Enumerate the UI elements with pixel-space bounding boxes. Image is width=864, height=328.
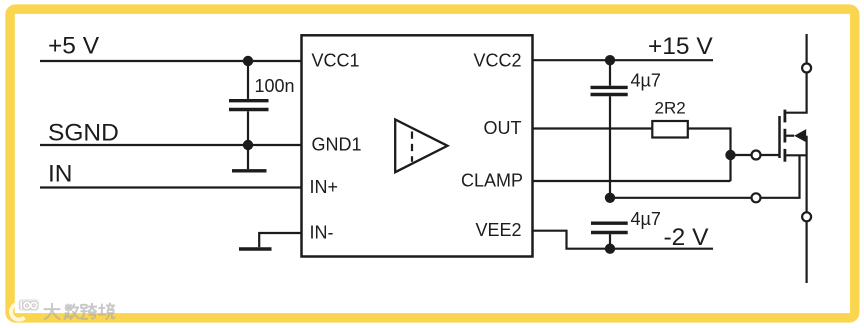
resistor 2R2 (652, 121, 688, 138)
svg-text:4µ7: 4µ7 (631, 71, 661, 91)
svg-text:IN+: IN+ (310, 177, 339, 197)
svg-text:IN-: IN- (310, 222, 334, 242)
connector circle source row (752, 193, 761, 202)
svg-text:SGND: SGND (48, 119, 119, 146)
watermark logo (11, 299, 39, 319)
svg-text:VCC2: VCC2 (473, 50, 521, 70)
transistor Q1 MOSFET (780, 34, 807, 283)
svg-text:GND1: GND1 (312, 135, 362, 155)
svg-text:+5 V: +5 V (48, 33, 100, 60)
svg-text:VEE2: VEE2 (475, 220, 521, 240)
wire SGND rail (40, 144, 302, 146)
capacitor 4u7 upper (591, 60, 628, 198)
MOSFET body arrow (794, 129, 806, 142)
svg-text:CLAMP: CLAMP (461, 170, 523, 190)
wire CLAMP (533, 180, 731, 182)
capacitor 4u7 lower (591, 223, 628, 249)
svg-text:+15 V: +15 V (648, 33, 713, 60)
wire VEE2 to -2V rail (533, 231, 714, 249)
junction dot source/4u7 (605, 193, 615, 203)
svg-text:OUT: OUT (484, 118, 522, 138)
wire +5V rail (40, 60, 302, 62)
ground at IN- (239, 247, 272, 250)
junction dot SGND/100n (243, 140, 253, 150)
svg-text:4µ7: 4µ7 (631, 209, 661, 229)
wire IN rail (40, 186, 302, 188)
wire IN- to ground (259, 233, 301, 247)
dashed line inside buffer (411, 132, 413, 162)
op-amp buffer triangle U1 (395, 120, 447, 173)
connector circle drain top (802, 64, 811, 73)
svg-text:2R2: 2R2 (655, 99, 686, 118)
svg-text:-2 V: -2 V (664, 224, 710, 251)
watermark text (44, 303, 114, 319)
wire OUT to resistor (533, 127, 653, 129)
IC U1 gate driver body (302, 35, 533, 256)
capacitor 100n (229, 61, 269, 145)
junction dot gate node (725, 150, 735, 160)
junction dot +15V/4u7 (605, 55, 615, 65)
ground below SGND junction (232, 145, 267, 171)
wire gate node to MOSFET gate (731, 154, 780, 156)
connector circle gate (752, 151, 761, 160)
svg-text:IN: IN (48, 161, 73, 188)
wire resistor to gate node (688, 129, 731, 182)
svg-text:VCC1: VCC1 (312, 50, 360, 70)
wire source node row (610, 155, 800, 198)
junction dot -2V/4u7 (605, 244, 615, 254)
connector circle source bottom (802, 212, 811, 221)
svg-text:100n: 100n (255, 76, 295, 96)
junction dot +5V/100n (243, 56, 253, 66)
wire VCC2 to +15V rail (533, 59, 714, 61)
